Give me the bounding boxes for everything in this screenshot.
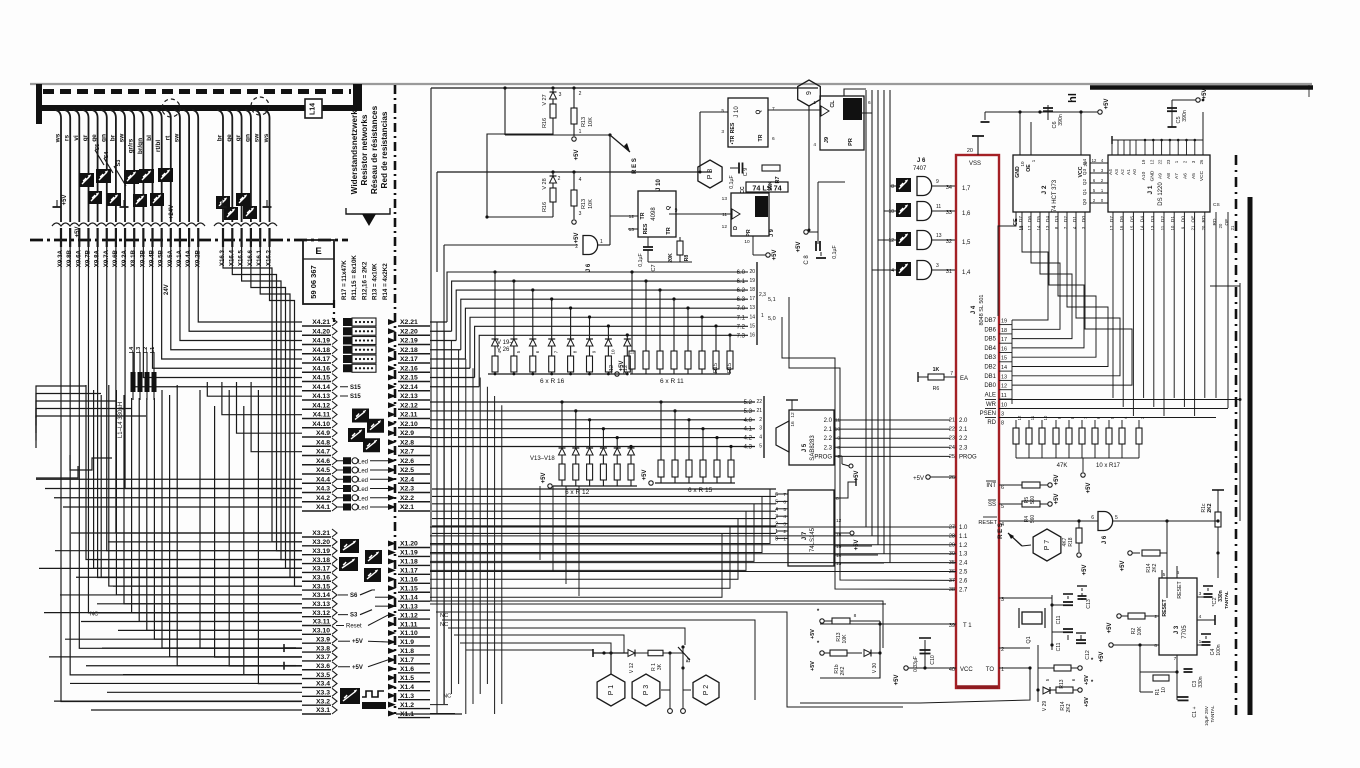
svg-text:X4.13: X4.13: [312, 393, 330, 400]
svg-text:1: 1: [813, 100, 816, 106]
dash-dot vertical below E: [333, 300, 335, 322]
svg-text:1: 1: [775, 529, 778, 535]
outer nested vertical: [430, 88, 432, 601]
svg-text:5,1: 5,1: [768, 297, 776, 303]
svg-text:+5V: +5V: [1082, 565, 1088, 576]
svg-text:11: 11: [1001, 393, 1007, 399]
svg-text:D1: D1: [1072, 216, 1078, 222]
svg-text:CC: CC: [740, 186, 746, 194]
svg-text:J 1: J 1: [1147, 185, 1154, 194]
control bus lines: [999, 283, 1242, 521]
svg-text:8: 8: [1001, 421, 1004, 427]
J10 box 1 top: [699, 98, 821, 174]
svg-text:6: 6: [775, 492, 778, 498]
svg-text:R E S: R E S: [998, 523, 1004, 539]
T-bar stubs X3.8 X3.6: [284, 644, 296, 670]
svg-text:21: 21: [949, 418, 955, 424]
J1 DS1220: [1108, 112, 1210, 212]
svg-text:X3.20: X3.20: [312, 539, 330, 546]
svg-text:X2.2: X2.2: [400, 495, 414, 502]
svg-text:4: 4: [775, 507, 778, 513]
R1c 2K2: [1167, 490, 1224, 555]
J6 gate 1: [575, 236, 610, 273]
svg-text:V 30: V 30: [872, 663, 878, 674]
svg-text:0,1µF: 0,1µF: [638, 253, 644, 266]
svg-text:10 x R17: 10 x R17: [1096, 463, 1121, 469]
74LS74 J9 lower: [669, 186, 775, 245]
svg-text:C7: C7: [651, 264, 657, 271]
svg-text:5.2: 5.2: [744, 400, 753, 406]
svg-text:2.0: 2.0: [959, 418, 968, 424]
svg-text:INT: INT: [986, 483, 996, 489]
svg-text:18: 18: [1001, 328, 1007, 334]
svg-text:RD: RD: [987, 420, 996, 426]
svg-text:R13 = 4x10K: R13 = 4x10K: [372, 263, 379, 300]
svg-text:ge: ge: [226, 134, 233, 142]
svg-text:6.2: 6.2: [737, 288, 746, 294]
svg-text:SS: SS: [988, 502, 996, 508]
C6 cap cluster: [981, 99, 1111, 129]
frame dashed border top: [43, 89, 351, 94]
svg-text:X4.5: X4.5: [316, 467, 330, 474]
svg-text:S6: S6: [350, 593, 358, 599]
svg-text:390n: 390n: [1182, 110, 1188, 122]
svg-text:X1.5: X1.5: [400, 675, 414, 682]
svg-text:+5V: +5V: [352, 639, 363, 645]
svg-text:A3: A3: [1114, 169, 1119, 175]
svg-text:34: 34: [946, 185, 952, 191]
svg-text:1.0: 1.0: [959, 525, 968, 531]
svg-text:RES: RES: [643, 223, 649, 234]
svg-text:X2.3: X2.3: [400, 486, 414, 493]
svg-text:Led: Led: [358, 469, 368, 475]
svg-text:23: 23: [949, 436, 955, 442]
svg-text:Q0: Q0: [1082, 198, 1088, 205]
svg-text:D: D: [733, 226, 739, 230]
svg-text:32: 32: [946, 239, 952, 245]
svg-text:+5V: +5V: [1054, 494, 1060, 505]
T1 input resistors: [810, 609, 956, 658]
svg-text:R12,16 = 2K2: R12,16 = 2K2: [361, 261, 368, 300]
svg-text:5: 5: [1001, 504, 1004, 510]
svg-text:RD: RD: [1201, 215, 1207, 222]
svg-text:X2.10: X2.10: [400, 421, 418, 428]
svg-text:D4: D4: [1045, 216, 1051, 222]
svg-text:V 28: V 28: [542, 178, 548, 189]
J9 flipflop top: [813, 89, 872, 150]
svg-text:X3.19: X3.19: [312, 548, 330, 555]
S6 S3 Reset switches: [336, 590, 388, 630]
svg-text:13: 13: [936, 233, 942, 239]
C13 dashed: [1077, 586, 1092, 609]
svg-text:X2.8: X2.8: [400, 439, 414, 446]
J3 7705 box: [1159, 566, 1218, 655]
svg-text:D2: D2: [1063, 216, 1069, 222]
svg-text:RESET: RESET: [1162, 599, 1168, 617]
wire colour labels group2: [217, 133, 271, 144]
svg-text:J 10: J 10: [734, 106, 740, 118]
pulse icon bottom: [340, 688, 386, 709]
svg-text:10: 10: [744, 239, 750, 245]
svg-text:6: 6: [772, 136, 775, 142]
svg-text:X1.6: X1.6: [400, 666, 414, 673]
svg-text:R11,15 = 8x10K: R11,15 = 8x10K: [351, 255, 358, 300]
74LS74 label box: [746, 182, 788, 193]
svg-text:C13: C13: [1086, 599, 1092, 609]
svg-text:47K: 47K: [1057, 463, 1068, 469]
svg-text:DB7: DB7: [984, 318, 996, 324]
C9 R7 row: [729, 163, 781, 191]
xtal wiring: [999, 598, 1052, 650]
svg-text:PROG: PROG: [959, 454, 977, 460]
svg-text:16: 16: [790, 421, 796, 427]
svg-text:X1.7: X1.7: [400, 657, 414, 664]
svg-text:X3.13: X3.13: [312, 601, 330, 608]
svg-text:+5V: +5V: [1104, 99, 1110, 110]
svg-text:330n: 330n: [1198, 676, 1204, 687]
svg-text:RESET: RESET: [978, 520, 997, 526]
center vertical bundle: [396, 322, 579, 714]
svg-text:26: 26: [949, 475, 955, 481]
res net wire: [504, 88, 506, 135]
svg-text:20K: 20K: [668, 253, 674, 263]
svg-text:D0: D0: [1180, 216, 1186, 222]
svg-text:20: 20: [967, 148, 973, 154]
svg-text:2.2: 2.2: [824, 436, 833, 442]
switches S5 S4 S3: [95, 144, 126, 186]
svg-text:+5V: +5V: [352, 665, 363, 671]
svg-text:1.2: 1.2: [959, 543, 968, 549]
svg-text:24V: 24V: [164, 284, 170, 295]
svg-text:6.3: 6.3: [737, 297, 746, 303]
svg-text:gn: gn: [100, 134, 107, 142]
svg-text:X4.8: X4.8: [316, 439, 330, 446]
svg-text:4: 4: [891, 268, 894, 274]
svg-text:4098: 4098: [651, 207, 657, 221]
svg-text:L4: L4: [129, 346, 135, 353]
svg-text:5: 5: [721, 108, 724, 114]
P1 hexagon: [597, 654, 625, 706]
svg-text:X1.16: X1.16: [400, 577, 418, 584]
svg-text:OE: OE: [1026, 164, 1032, 172]
svg-text:12: 12: [1092, 158, 1097, 163]
svg-text:X3.17: X3.17: [312, 566, 330, 573]
dashed circle A: [162, 99, 180, 117]
svg-text:6.1: 6.1: [737, 279, 746, 285]
svg-text:+5V: +5V: [1107, 623, 1113, 634]
svg-text:6 x R 12: 6 x R 12: [565, 489, 590, 496]
svg-text:X1.10: X1.10: [400, 630, 418, 637]
svg-text:+5V: +5V: [913, 476, 924, 482]
svg-text:X3.10: X3.10: [312, 628, 330, 635]
RESET pin: [978, 517, 1098, 528]
P9 hexagon top: [798, 80, 821, 232]
svg-text:X1.19: X1.19: [400, 550, 418, 557]
svg-text:R13: R13: [581, 199, 587, 209]
svg-text:S4: S4: [104, 151, 110, 159]
svg-text:8: 8: [891, 184, 894, 190]
svg-text:X3.21: X3.21: [312, 530, 330, 537]
port1 pins: [430, 525, 968, 594]
svg-text:GND: GND: [1015, 166, 1021, 178]
X9 connector labels: [57, 249, 201, 267]
svg-text:X2.7: X2.7: [400, 449, 414, 456]
svg-text:22: 22: [756, 399, 762, 405]
C10 cap: [913, 638, 936, 672]
svg-text:EA: EA: [960, 376, 968, 382]
svg-text:X1.8: X1.8: [400, 648, 414, 655]
svg-text:7.1: 7.1: [737, 315, 746, 321]
RES arrow label: [608, 133, 638, 173]
svg-text:S15: S15: [350, 394, 361, 400]
svg-text:+5V: +5V: [574, 150, 580, 161]
svg-text:+5V: +5V: [894, 675, 900, 686]
svg-text:X2.16: X2.16: [400, 365, 418, 372]
X16 wire routes: [223, 247, 302, 586]
V27 branch: [485, 86, 561, 218]
svg-text:1: 1: [579, 129, 582, 135]
svg-text:rt/bl: rt/bl: [155, 140, 162, 152]
X16 connector labels: [219, 249, 273, 266]
svg-text:X2.15: X2.15: [400, 375, 418, 382]
EA pin: [918, 367, 968, 392]
VCC pin: [894, 666, 973, 686]
svg-text:DB2: DB2: [984, 365, 996, 371]
top bus staircase: [430, 272, 748, 387]
svg-text:V 12: V 12: [629, 663, 635, 674]
svg-text:S3: S3: [350, 613, 358, 619]
svg-text:+5V: +5V: [1099, 652, 1105, 663]
top wire y88: [431, 87, 818, 89]
J3 pin1 C4: [1197, 634, 1222, 656]
C11 lower: [1052, 629, 1073, 651]
svg-text:7: 7: [772, 106, 775, 112]
dash-dot boundary X9/X16: [30, 239, 348, 242]
svg-text:ws: ws: [263, 133, 270, 143]
svg-text:59 06 367: 59 06 367: [309, 265, 318, 298]
svg-text:2: 2: [759, 417, 762, 423]
svg-text:2,3: 2,3: [759, 292, 766, 298]
svg-text:sw: sw: [119, 133, 126, 143]
svg-text:V 19–: V 19–: [497, 340, 513, 346]
svg-text:4.0: 4.0: [744, 418, 753, 424]
svg-text:VSS: VSS: [969, 161, 981, 167]
svg-text:X1.13: X1.13: [400, 603, 418, 610]
svg-text:16: 16: [749, 332, 755, 338]
J3 pin2 R2: [1107, 613, 1159, 635]
svg-text:10K: 10K: [1137, 626, 1143, 636]
svg-text:DB5: DB5: [984, 337, 996, 343]
R18 4K7: [1062, 519, 1088, 575]
svg-text:12: 12: [836, 518, 842, 524]
long bottom wire: [800, 666, 1032, 703]
svg-text:5.3: 5.3: [744, 409, 753, 415]
svg-text:4: 4: [759, 435, 762, 441]
svg-text:TR: TR: [666, 227, 672, 234]
J5 SAB8283: [776, 400, 834, 465]
C7 cap: [638, 237, 657, 272]
svg-text:PROG: PROG: [814, 454, 832, 460]
svg-text:4: 4: [813, 142, 816, 148]
nested routes to X1: [430, 601, 903, 707]
center-right vertical bundle: [782, 90, 956, 589]
svg-text:0,1µF: 0,1µF: [729, 175, 735, 188]
svg-text:10: 10: [1043, 415, 1048, 420]
V28 branch: [542, 170, 561, 217]
svg-text:PR: PR: [746, 229, 752, 236]
dashed circle B: [251, 97, 269, 115]
wire y172 long: [437, 171, 712, 173]
svg-text:Q3: Q3: [1082, 168, 1088, 175]
C8 cap: [796, 226, 838, 265]
svg-text:10K: 10K: [588, 199, 594, 209]
svg-text:2: 2: [1154, 614, 1157, 620]
svg-text:Q: Q: [666, 205, 672, 210]
svg-text:RESET: RESET: [1177, 581, 1183, 599]
svg-text:gr: gr: [82, 134, 89, 141]
svg-text:100n: 100n: [1216, 644, 1222, 655]
svg-text:2.6: 2.6: [959, 578, 968, 584]
svg-text:Q1: Q1: [1082, 188, 1088, 195]
svg-text:DB1: DB1: [984, 374, 996, 380]
svg-text:J 9: J 9: [769, 229, 775, 237]
svg-text:6.0: 6.0: [737, 270, 746, 276]
svg-text:14: 14: [1001, 365, 1007, 371]
svg-text:L3: L3: [136, 347, 142, 353]
svg-text:X1.18: X1.18: [400, 559, 418, 566]
svg-text:Widerstandsnetzwerke: Widerstandsnetzwerke: [350, 105, 359, 194]
opto squares group2: [216, 193, 257, 220]
pullup network 10xR17: [1013, 415, 1145, 493]
L14 box: [305, 99, 322, 118]
svg-text:S5: S5: [95, 144, 101, 151]
svg-text:gr/rs: gr/rs: [128, 138, 135, 153]
svg-text:3: 3: [721, 129, 724, 135]
svg-text:+24V: +24V: [169, 205, 175, 219]
svg-text:X3.7: X3.7: [316, 654, 330, 661]
svg-text:19: 19: [749, 278, 755, 284]
svg-text:2: 2: [558, 176, 561, 182]
svg-text:X4.7: X4.7: [316, 449, 330, 456]
svg-text:12: 12: [790, 412, 796, 418]
svg-text:16: 16: [1001, 346, 1007, 352]
svg-text:+5V: +5V: [1202, 89, 1208, 100]
bus rail 1: [737, 262, 776, 345]
svg-text:Reset: Reset: [346, 624, 362, 630]
svg-text:A5: A5: [1191, 173, 1197, 179]
svg-text:3: 3: [759, 426, 762, 432]
svg-text:gn: gn: [244, 134, 251, 142]
svg-text:6: 6: [783, 499, 786, 505]
svg-text:9: 9: [675, 208, 678, 214]
svg-text:3: 3: [1199, 591, 1202, 597]
svg-text:Br: Br: [686, 657, 692, 662]
svg-text:+5V: +5V: [810, 629, 816, 639]
svg-text:2: 2: [579, 91, 582, 97]
svg-text:X4.2: X4.2: [316, 495, 330, 502]
scan artifact gray page edge: [30, 83, 1312, 85]
svg-text:PSEN: PSEN: [980, 411, 996, 417]
svg-text:X4.18: X4.18: [312, 347, 330, 354]
X3 connector stack: [302, 529, 337, 714]
svg-text:D2: D2: [1160, 216, 1166, 222]
svg-text:+5V: +5V: [796, 242, 802, 253]
svg-text:10µF 25V: 10µF 25V: [1204, 705, 1209, 726]
svg-text:X4.9: X4.9: [316, 430, 330, 437]
svg-text:X3.6: X3.6: [316, 663, 330, 670]
dash-dot vertical separator: [394, 85, 397, 714]
J6 7407 label: [913, 158, 927, 172]
V29 R14 pair: [1036, 680, 1093, 712]
svg-text:E: E: [315, 246, 321, 257]
svg-text:Q2: Q2: [1082, 178, 1088, 185]
svg-text:R15: R15: [713, 363, 719, 373]
svg-text:X2.5: X2.5: [400, 467, 414, 474]
svg-text:+5V: +5V: [854, 471, 860, 482]
svg-text:9: 9: [806, 91, 813, 95]
svg-text:+5V: +5V: [541, 473, 547, 484]
R14 2K2 into gate: [1120, 521, 1167, 598]
svg-text:J 10: J 10: [656, 179, 662, 191]
svg-text:Réseau de résistances: Réseau de résistances: [370, 105, 379, 194]
INT pin: [986, 475, 1060, 505]
left harness wires group2: [217, 110, 270, 222]
svg-text:0,33µF: 0,33µF: [913, 656, 919, 672]
network V19-V26 6xR16: [488, 270, 634, 385]
left mesh horizontals: [36, 386, 302, 710]
J7 74LS145: [775, 478, 884, 567]
svg-text:2: 2: [783, 529, 786, 535]
svg-text:7: 7: [1174, 656, 1177, 662]
svg-text:ALE: ALE: [985, 392, 996, 398]
svg-text:31: 31: [946, 269, 952, 275]
svg-text:A9: A9: [1158, 173, 1164, 179]
svg-text:R17 = 11x47K: R17 = 11x47K: [341, 260, 348, 300]
network 6xR15: [642, 400, 735, 494]
C12: [1076, 633, 1095, 660]
svg-text:6: 6: [868, 100, 871, 106]
P3 hexagon: [632, 674, 670, 706]
svg-text:C10: C10: [930, 655, 936, 665]
svg-text:R18: R18: [1068, 537, 1074, 546]
svg-text:DS 1220: DS 1220: [1158, 182, 1164, 206]
svg-text:hl: hl: [1067, 93, 1079, 103]
svg-text:10: 10: [888, 209, 894, 215]
svg-text:6 x R 16: 6 x R 16: [540, 378, 565, 385]
second bus lines: [430, 402, 755, 447]
svg-text:X2.9: X2.9: [400, 430, 414, 437]
svg-text:10K: 10K: [588, 117, 594, 127]
svg-text:R16: R16: [542, 118, 548, 128]
svg-text:13: 13: [836, 561, 842, 567]
svg-text:X4.6: X4.6: [316, 458, 330, 465]
svg-text:J 2: J 2: [1041, 185, 1048, 194]
J3 pin7 R1 C3: [1140, 645, 1215, 726]
svg-text:L14: L14: [310, 103, 317, 115]
svg-text:10K: 10K: [842, 634, 848, 644]
gate2 to J3: [1216, 519, 1219, 578]
svg-text:2K2: 2K2: [1066, 703, 1072, 712]
svg-text:2.5: 2.5: [959, 570, 968, 576]
svg-text:13: 13: [629, 227, 635, 233]
svg-text:Led: Led: [358, 459, 368, 465]
svg-text:+5V: +5V: [62, 195, 68, 206]
svg-text:R1c: R1c: [1201, 503, 1207, 512]
svg-text:7705: 7705: [1182, 625, 1188, 639]
svg-text:14: 14: [749, 314, 755, 320]
V30 branch: [810, 641, 882, 678]
svg-text:X3.18: X3.18: [312, 557, 330, 564]
